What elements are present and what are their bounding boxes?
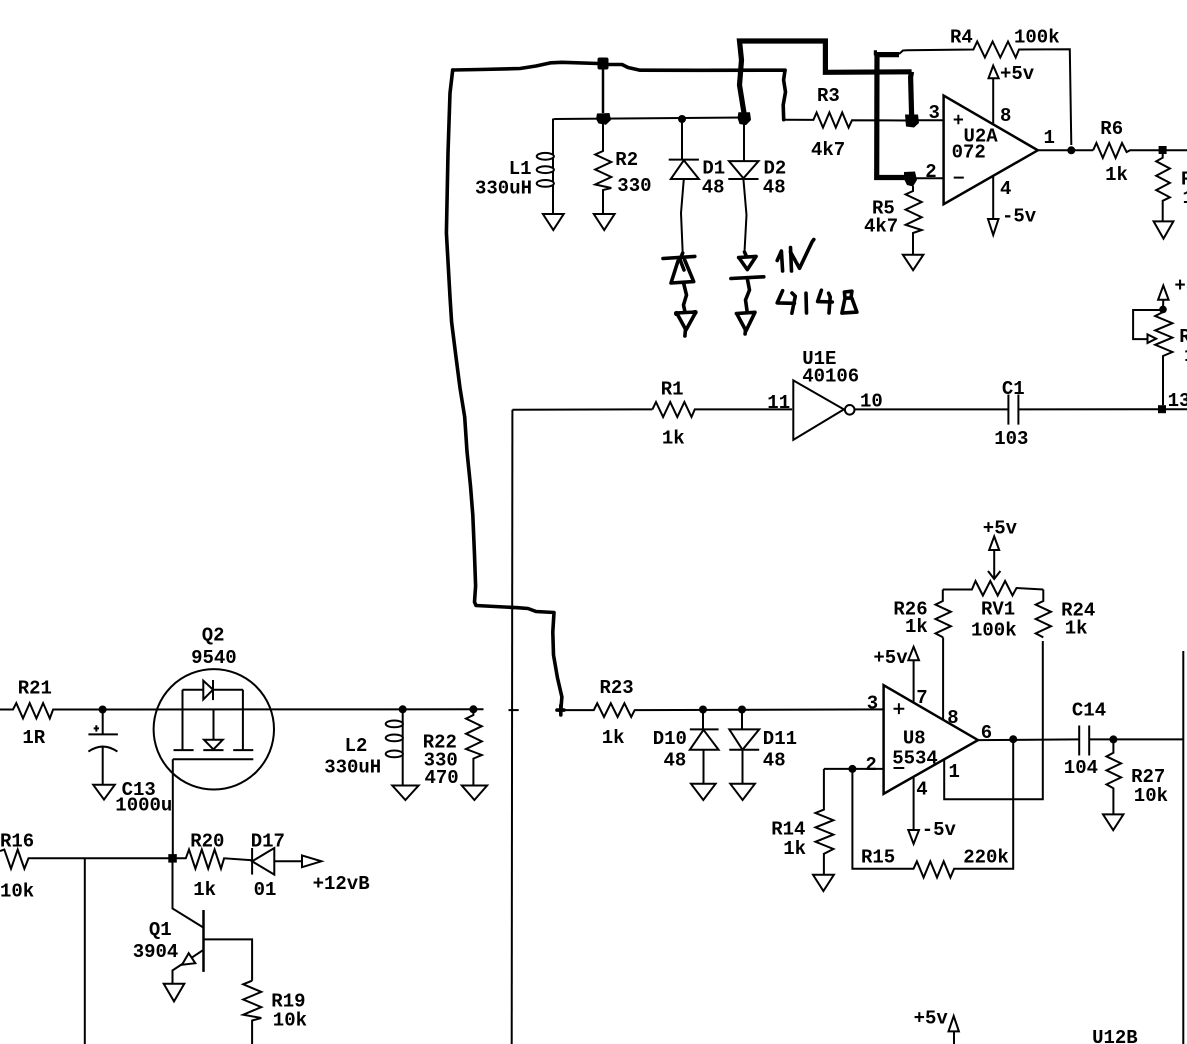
svg-text:R6: R6 bbox=[1100, 118, 1123, 140]
wire: op-amp output to R6 bbox=[1038, 149, 1093, 151]
wire: right edge vertical bbox=[1182, 651, 1184, 1044]
resistor R20 1k bbox=[173, 831, 253, 902]
svg-text:1k: 1k bbox=[1065, 618, 1088, 640]
resistor R19 10k bbox=[243, 981, 307, 1044]
junction: R6 output node bbox=[1159, 146, 1167, 154]
inverter U1E 40106 bbox=[767, 348, 883, 440]
svg-text:3904: 3904 bbox=[133, 941, 179, 963]
wire: thick corner from pin2 column to R4 lead bbox=[874, 53, 899, 55]
trimpot RV1 100k bbox=[943, 581, 1044, 642]
diode D17 01 bbox=[251, 831, 302, 902]
capacitor C13 1000u (polarized) bbox=[88, 710, 172, 817]
svg-text:R3: R3 bbox=[817, 85, 840, 107]
ground at R2 bbox=[594, 214, 615, 230]
wire: top rail from node A to R3 corner bbox=[608, 65, 785, 71]
svg-text:R23: R23 bbox=[600, 677, 634, 699]
svg-text:10k: 10k bbox=[0, 881, 34, 903]
diode D1 48 bbox=[669, 119, 726, 253]
svg-text:C1: C1 bbox=[1002, 378, 1025, 400]
svg-text:100k: 100k bbox=[1014, 27, 1060, 49]
wire: inverter output to C1 bbox=[854, 408, 1008, 410]
transistor Q2 9540 (P-MOSFET in circle) bbox=[154, 625, 274, 790]
svg-text:8: 8 bbox=[1000, 105, 1011, 127]
svg-text:48: 48 bbox=[702, 177, 725, 199]
svg-text:-5v: -5v bbox=[1002, 206, 1037, 228]
op-amp U2A 072 bbox=[925, 96, 1055, 205]
wire: rail from C13 node through Q2 to R22 bbox=[103, 708, 484, 710]
ground at L2 bbox=[392, 786, 418, 801]
wire: hand-drawn top rail from left corner to node A bbox=[453, 62, 598, 70]
BOTTOM RIGHT SECTION bbox=[557, 518, 1183, 1044]
MIDDLE SECTION bbox=[475, 112, 1187, 1044]
wire: Q2 gate lead down to R20 node bbox=[172, 759, 174, 858]
diode D10 48 bbox=[653, 710, 719, 784]
svg-text:11: 11 bbox=[767, 392, 790, 414]
inductor L2 330uH bbox=[324, 709, 403, 784]
hand-drawn diode sketch under D2 bbox=[731, 252, 764, 334]
svg-text:L2: L2 bbox=[345, 735, 368, 757]
resistor R15 220k bbox=[852, 739, 1013, 877]
svg-text:+5v: +5v bbox=[1000, 63, 1035, 85]
svg-text:4: 4 bbox=[916, 778, 927, 800]
wire: +5v wiper shaft into RV1 bbox=[993, 550, 995, 578]
inductor L1 330uH bbox=[475, 119, 555, 213]
junction: R2 top node blob bbox=[596, 113, 611, 125]
BOTTOM LEFT SECTION bbox=[0, 625, 519, 1044]
svg-text:1: 1 bbox=[949, 761, 960, 783]
svg-text:U12B: U12B bbox=[1092, 1027, 1138, 1044]
svg-text:D17: D17 bbox=[251, 831, 285, 853]
power +5v bottom (to off-page U12B) bbox=[914, 1008, 959, 1044]
svg-text:1k: 1k bbox=[905, 616, 928, 638]
diode D11 48 bbox=[729, 710, 797, 784]
svg-text:-5v: -5v bbox=[922, 819, 957, 841]
op-amp U8 5534 bbox=[865, 685, 992, 800]
wire: pin3 column vertical down to pin3 node bbox=[911, 72, 912, 115]
ground at D10 bbox=[691, 784, 716, 800]
svg-text:R20: R20 bbox=[190, 831, 224, 853]
trimpot RV2 (labels cut at edge) bbox=[1133, 309, 1187, 405]
svg-text:R1: R1 bbox=[661, 378, 684, 400]
svg-text:R15: R15 bbox=[861, 847, 895, 869]
junction: R27 node bbox=[1109, 735, 1117, 743]
signal arrow +12vB bbox=[302, 855, 370, 895]
svg-text:R16: R16 bbox=[0, 831, 34, 853]
resistor R24 1k bbox=[1036, 590, 1096, 640]
wire: pin 2 rail from R14 corner to op-amp bbox=[824, 768, 884, 770]
svg-text:330uH: 330uH bbox=[475, 178, 532, 200]
resistor R21 1R bbox=[0, 678, 103, 750]
power +5v at U2A pin 8 bbox=[989, 63, 1035, 85]
wire: rail from L1 corner to D2 node bbox=[555, 118, 744, 120]
svg-text:1R: 1R bbox=[22, 727, 45, 749]
wire: pin 4 to -5v bbox=[992, 176, 994, 219]
svg-text:+5: +5 bbox=[1174, 275, 1187, 297]
TOP SECTION bbox=[446, 27, 1187, 711]
wire: main rail from R1 corner, long vertical down left of R23 bbox=[511, 410, 514, 1044]
svg-text:103: 103 bbox=[994, 428, 1028, 450]
svg-text:1k: 1k bbox=[602, 727, 625, 749]
wire: pin 7 up to +5v bbox=[913, 660, 915, 702]
svg-text:+5v: +5v bbox=[914, 1008, 949, 1030]
wire: pin 1 comp loop to R24 bottom bbox=[944, 641, 1043, 799]
wire: hand-drawn drop from top rail to R3 left lead bbox=[783, 70, 785, 120]
junction: pin 3 node blob bbox=[905, 115, 919, 128]
svg-text:13: 13 bbox=[1168, 390, 1187, 412]
svg-text:3: 3 bbox=[929, 102, 940, 124]
svg-text:40106: 40106 bbox=[802, 366, 859, 388]
svg-text:1k: 1k bbox=[783, 838, 806, 860]
resistor R4 100k bbox=[899, 27, 1071, 145]
wire: pin 8 to +5v bbox=[992, 78, 994, 124]
svg-text:1: 1 bbox=[1183, 187, 1187, 209]
svg-text:4k7: 4k7 bbox=[811, 139, 845, 161]
ground at L1 bbox=[543, 214, 564, 230]
ground at R7 bbox=[1154, 221, 1174, 238]
junction: output / R15 node bbox=[1009, 735, 1017, 743]
resistor R2 330 bbox=[595, 122, 651, 213]
wire: +5 arrow to trimpot top bbox=[1162, 300, 1164, 310]
ground at R5 bbox=[903, 255, 924, 271]
resistor R26 1k bbox=[893, 590, 951, 639]
wire: hand-drawn long left vertical from top rail down to R23 bbox=[446, 70, 562, 710]
svg-text:100k: 100k bbox=[971, 620, 1017, 642]
resistor R22 330 470 bbox=[423, 709, 482, 789]
power -5v at U2A pin 4 bbox=[988, 206, 1037, 236]
diode D2 48 bbox=[728, 118, 786, 253]
svg-text:+5v: +5v bbox=[983, 518, 1018, 540]
svg-text:8: 8 bbox=[947, 707, 958, 729]
ground at C13 bbox=[93, 785, 115, 800]
wire: pin 2 stub into op-amp bbox=[915, 177, 944, 179]
wire: node A vertical down to R2 top junction bbox=[602, 69, 605, 113]
resistor R5 4k7 bbox=[864, 186, 922, 255]
svg-text:U8: U8 bbox=[903, 727, 926, 749]
svg-text:Q1: Q1 bbox=[149, 919, 172, 941]
ground at D11 bbox=[730, 784, 755, 800]
svg-text:330: 330 bbox=[617, 175, 651, 197]
svg-text:220k: 220k bbox=[963, 847, 1009, 869]
junction: trimpot top node bbox=[1159, 306, 1167, 314]
wire: pin 3 stub into op-amp bbox=[916, 119, 944, 121]
handwritten annotation "4148" bbox=[777, 290, 857, 313]
wire: tick crossing long vertical at drain rail level bbox=[509, 709, 519, 711]
power -5v at U8 pin 4 bbox=[908, 819, 956, 844]
svg-text:1: 1 bbox=[1044, 127, 1055, 149]
svg-text:48: 48 bbox=[763, 749, 786, 771]
junction: R22 node bbox=[469, 705, 477, 713]
svg-text:1k: 1k bbox=[1105, 164, 1128, 186]
svg-text:470: 470 bbox=[425, 767, 459, 789]
svg-text:+5v: +5v bbox=[873, 647, 908, 669]
resistor R23 1k bbox=[561, 677, 884, 749]
resistor R1 1k bbox=[652, 378, 792, 449]
svg-text:R2: R2 bbox=[615, 149, 638, 171]
svg-text:4k7: 4k7 bbox=[864, 216, 898, 238]
ground at Q1 emitter bbox=[164, 984, 185, 1002]
resistor R16 10k (cut at left edge) bbox=[0, 831, 173, 903]
svg-text:1000u: 1000u bbox=[115, 795, 172, 817]
junction: L2 node bbox=[399, 705, 407, 713]
svg-text:7: 7 bbox=[916, 687, 927, 709]
wire: hand line end tick at R23 input bbox=[557, 706, 564, 716]
resistor R14 1k bbox=[771, 769, 833, 874]
svg-text:R21: R21 bbox=[18, 678, 52, 700]
wire: thick R4 branch vertical (pin 2 column) bbox=[877, 53, 905, 178]
junction node A (top rail / R2 column) bbox=[598, 58, 609, 70]
junction: D2 top node blob bbox=[738, 112, 752, 125]
svg-text:Q2: Q2 bbox=[202, 625, 225, 647]
svg-text:+12vB: +12vB bbox=[313, 873, 370, 895]
wire: pin 8 up to R26 bbox=[942, 637, 944, 719]
junction: D11 node bbox=[738, 706, 746, 714]
svg-text:2: 2 bbox=[925, 161, 936, 183]
svg-text:1k: 1k bbox=[662, 428, 685, 450]
hand-drawn diode sketch under D1 bbox=[663, 253, 698, 336]
ground at R27 bbox=[1103, 814, 1123, 830]
power +5 at right trimpot (cut at edge) bbox=[1158, 275, 1187, 300]
ground at R14 bbox=[813, 875, 834, 891]
svg-text:48: 48 bbox=[664, 749, 687, 771]
capacitor C14 104 bbox=[1064, 700, 1106, 779]
ground at R22 bbox=[462, 786, 487, 801]
resistor R27 10k bbox=[1107, 739, 1169, 813]
svg-text:01: 01 bbox=[254, 879, 277, 901]
power +5v at RV1 bbox=[983, 518, 1018, 550]
junction: D10 node bbox=[699, 706, 707, 714]
power +5v at U8 pin 7 bbox=[873, 647, 919, 669]
svg-text:5534: 5534 bbox=[892, 748, 938, 770]
resistor R6 1k bbox=[1093, 118, 1187, 186]
svg-text:48: 48 bbox=[763, 177, 786, 199]
svg-text:10k: 10k bbox=[273, 1010, 307, 1032]
handwritten annotation "1N" bbox=[777, 240, 814, 272]
wire: C14 to right vertical bbox=[1089, 738, 1183, 740]
junction: output node (R4 feedback) bbox=[1067, 146, 1075, 154]
svg-text:2: 2 bbox=[865, 754, 876, 776]
junction: pin 13 node bbox=[1158, 405, 1166, 413]
resistor R7 (label cut at edge) bbox=[1156, 154, 1187, 221]
junction: pin 2 / R15 node bbox=[848, 765, 856, 773]
svg-text:RV1: RV1 bbox=[981, 599, 1015, 621]
wire: thick loop D2 node up-over to pin3 column bbox=[740, 41, 912, 113]
junction: D1 top dot bbox=[678, 115, 686, 123]
svg-text:4: 4 bbox=[1000, 178, 1011, 200]
svg-text:10k: 10k bbox=[1134, 785, 1168, 807]
capacitor C1 103 bbox=[994, 378, 1028, 450]
svg-text:9540: 9540 bbox=[191, 647, 237, 669]
svg-text:1k: 1k bbox=[193, 879, 216, 901]
junction: R20/R16/gate node bbox=[168, 854, 177, 863]
svg-text:072: 072 bbox=[952, 142, 986, 164]
svg-text:104: 104 bbox=[1064, 757, 1098, 779]
wire: branch from R16 rail down off-page bbox=[84, 858, 86, 1044]
junction: C13 node bbox=[99, 706, 107, 714]
svg-text:D10: D10 bbox=[653, 728, 687, 750]
svg-text:330uH: 330uH bbox=[324, 757, 381, 779]
svg-text:C14: C14 bbox=[1072, 700, 1106, 722]
wire: C1 to pin 13 rail to right edge bbox=[1018, 408, 1187, 410]
wire: U8 output rail bbox=[978, 738, 1079, 741]
wire: pin 4 down to -5v bbox=[913, 777, 915, 830]
svg-text:R4: R4 bbox=[950, 27, 973, 49]
wire: rail corner to R1 bbox=[512, 408, 652, 410]
svg-text:D11: D11 bbox=[763, 728, 797, 750]
junction: pin 2 node blob bbox=[904, 172, 917, 187]
svg-text:3: 3 bbox=[867, 693, 878, 715]
resistor R3 4k7 bbox=[784, 85, 906, 161]
transistor Q1 3904 (NPN) bbox=[133, 858, 252, 983]
